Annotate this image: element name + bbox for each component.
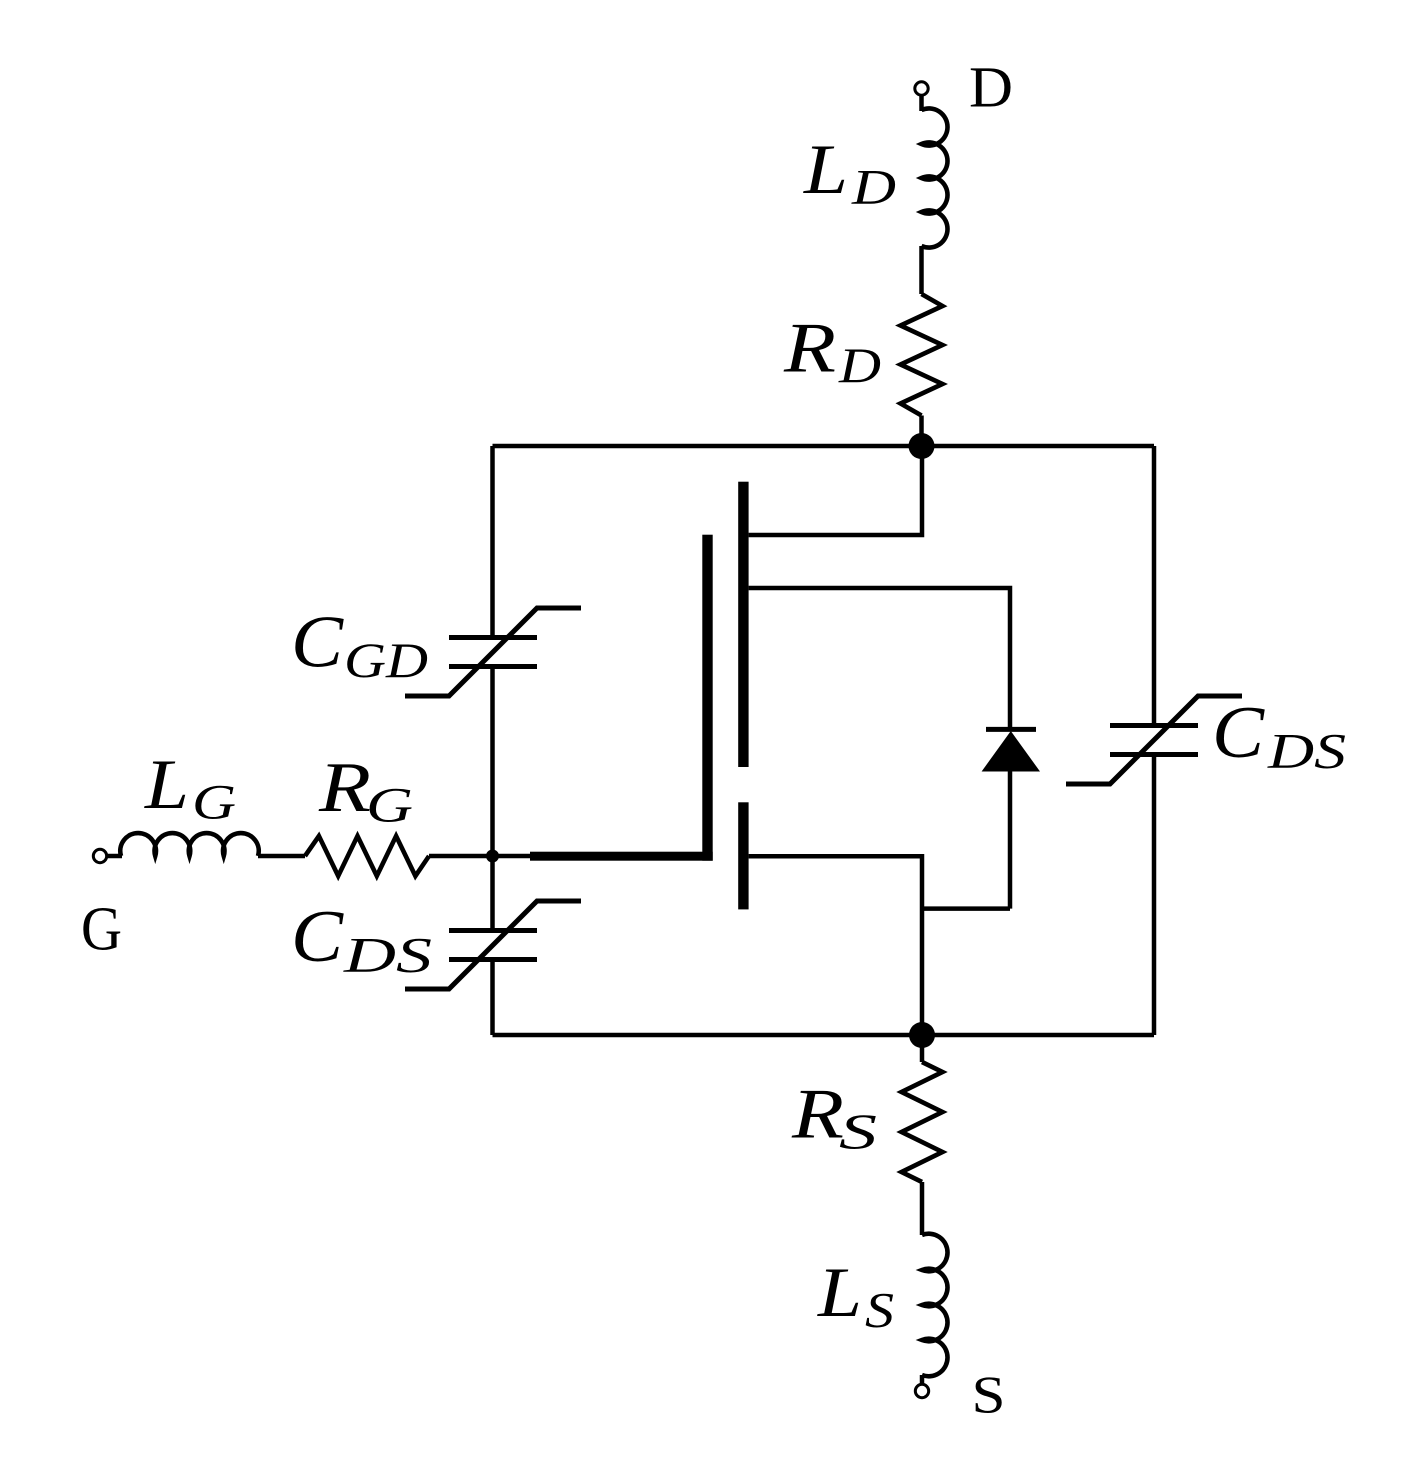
svg-text:R: R bbox=[318, 749, 371, 827]
wire gate node to gate lead bbox=[493, 854, 536, 859]
wire drain lead bbox=[749, 446, 922, 535]
resistor R_S bbox=[902, 1062, 943, 1182]
svg-text:D: D bbox=[969, 55, 1013, 120]
transistor M1 channel bar upper bbox=[738, 482, 748, 767]
wire L_S to S terminal bbox=[920, 1375, 925, 1385]
node gate (junction dot) bbox=[486, 850, 499, 863]
terminal G open circle bbox=[93, 849, 106, 862]
terminal D open circle bbox=[915, 82, 928, 95]
svg-text:C: C bbox=[1212, 692, 1266, 774]
wire gate node to C_GS bbox=[490, 856, 495, 931]
capacitor C_DS (right) bbox=[1066, 696, 1242, 784]
wire source lead bbox=[749, 856, 922, 1035]
wire channel to body diode bbox=[749, 588, 1010, 731]
wire source node to R_S bbox=[920, 1035, 925, 1062]
svg-text:GD: GD bbox=[344, 632, 428, 688]
wire diode to source branch bbox=[922, 906, 1010, 911]
svg-text:G: G bbox=[81, 896, 122, 964]
resistor R_G bbox=[305, 836, 429, 876]
svg-text:G: G bbox=[366, 777, 413, 833]
wire box top edge bbox=[493, 444, 1155, 449]
wire box right edge upper bbox=[1152, 446, 1157, 726]
wire box left edge upper (drain to C_GD) bbox=[490, 446, 495, 638]
wire R_D to drain node bbox=[919, 416, 924, 447]
svg-text:L: L bbox=[803, 131, 848, 209]
transistor M1 gate lead (thick) bbox=[530, 852, 713, 861]
transistor M1 channel bar lower bbox=[738, 802, 748, 909]
wire D terminal to L_D bbox=[919, 95, 924, 111]
svg-text:DS: DS bbox=[343, 927, 432, 983]
wire box bottom edge bbox=[493, 1033, 1155, 1038]
capacitor C_DS (lower left) bbox=[405, 901, 581, 989]
svg-text:S: S bbox=[865, 1282, 894, 1338]
svg-text:S: S bbox=[839, 1103, 877, 1159]
wire diode anode down bbox=[1008, 772, 1013, 909]
svg-text:R: R bbox=[783, 309, 836, 387]
svg-text:L: L bbox=[817, 1254, 862, 1332]
wire box right edge lower bbox=[1152, 754, 1157, 1035]
svg-text:R: R bbox=[791, 1075, 844, 1153]
transistor M1 gate bar bbox=[702, 535, 712, 861]
wire C_GD to gate node bbox=[490, 666, 495, 856]
wire L_G to R_G bbox=[258, 854, 305, 859]
wire G terminal to L_G bbox=[107, 854, 122, 859]
wire R_S to L_S bbox=[920, 1182, 925, 1235]
diode D1 (body diode) bbox=[982, 729, 1040, 771]
svg-text:G: G bbox=[192, 774, 236, 830]
svg-text:C: C bbox=[291, 896, 345, 978]
wire C_DS lower left to box bottom bbox=[490, 959, 495, 1035]
svg-text:L: L bbox=[144, 746, 189, 824]
inductor L_S bbox=[922, 1234, 948, 1377]
wire R_G to gate node bbox=[429, 854, 493, 859]
wire L_D to R_D bbox=[919, 246, 924, 294]
svg-text:S: S bbox=[972, 1367, 1006, 1425]
capacitor C_GD bbox=[405, 608, 581, 696]
resistor R_D bbox=[901, 294, 943, 416]
terminal S open circle bbox=[915, 1384, 928, 1397]
node drain (junction dot) bbox=[909, 433, 935, 459]
inductor L_D bbox=[922, 108, 948, 247]
svg-text:C: C bbox=[291, 602, 345, 684]
node source (junction dot) bbox=[909, 1022, 935, 1048]
inductor L_G bbox=[120, 833, 258, 856]
svg-text:D: D bbox=[838, 337, 881, 393]
svg-text:DS: DS bbox=[1267, 723, 1346, 779]
svg-text:D: D bbox=[851, 159, 896, 215]
